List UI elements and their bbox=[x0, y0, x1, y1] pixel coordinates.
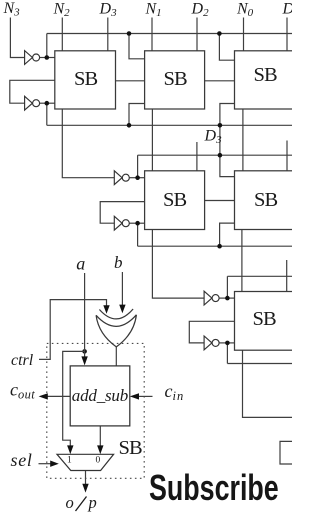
junction dot U6 out bbox=[225, 341, 230, 346]
label Subscribe banner bbox=[149, 467, 279, 509]
node N1 stem wire bbox=[151, 18, 153, 51]
svg-text:cout: cout bbox=[10, 380, 35, 402]
svg-text:1: 1 bbox=[67, 456, 72, 466]
svg-text:ctrl: ctrl bbox=[11, 352, 34, 369]
wire node D3 link between rails bbox=[219, 125, 221, 155]
wire bottom rail row2 bbox=[138, 245, 292, 247]
junction dot U2 out bbox=[45, 101, 50, 106]
wire SB3 left output down to rail row1 bbox=[220, 104, 235, 126]
wire D2 continuation into SB4 top bbox=[196, 142, 198, 171]
inverter U3 bbox=[114, 171, 122, 185]
junction dot U4 out bbox=[135, 221, 140, 226]
wire mux output o/p bbox=[85, 471, 87, 485]
arrowhead sel into mux bbox=[50, 461, 59, 467]
junction dot U3 out bbox=[135, 175, 140, 180]
mux M1 bbox=[57, 454, 114, 470]
wire riser inverter U5 output to rail row3 bbox=[226, 276, 228, 298]
wire top rail row1 bbox=[47, 33, 292, 35]
arrowhead c_in into add_sub pointing left bbox=[130, 393, 139, 399]
junction dot rail row2 x220 bbox=[218, 153, 223, 158]
svg-text:add_sub: add_sub bbox=[72, 386, 128, 405]
wire row4 cell fragment bbox=[280, 441, 292, 464]
wire SB3 bottom output down to SB5 top bbox=[242, 109, 244, 171]
wire dropper inverter U6 output to bottom rail row3 bbox=[226, 343, 228, 364]
junction dot bottom rail row1 x220 bbox=[218, 123, 223, 128]
svg-text:N2: N2 bbox=[53, 1, 71, 20]
wire SB6 bottom output down and right bbox=[243, 350, 293, 417]
node N2 stem wire bbox=[61, 18, 63, 51]
svg-text:SB: SB bbox=[164, 68, 188, 90]
svg-text:a: a bbox=[76, 253, 85, 273]
arrowhead ctrl into xor bbox=[103, 305, 109, 314]
svg-text:D: D bbox=[282, 1, 293, 18]
wire SB1 bottom output down to inverter U3 bbox=[62, 109, 114, 178]
dotted boundary box SB detail bbox=[47, 343, 144, 478]
wire riser inverter U1 output to top rail bbox=[46, 34, 48, 58]
wire top rail branch into SB2 left bbox=[129, 34, 145, 59]
svg-text:N0: N0 bbox=[236, 1, 254, 20]
svg-text:SB: SB bbox=[254, 64, 278, 86]
svg-text:0: 0 bbox=[96, 456, 101, 466]
wire top rail branch into SB3 left bbox=[219, 34, 234, 61]
wire top rail row3 bbox=[227, 275, 292, 277]
wire inverter U1 output to SB1 bbox=[40, 57, 55, 59]
arrowhead b into xor bbox=[119, 305, 125, 314]
inverter U6 bbox=[204, 336, 212, 350]
wire SB2 bottom output down to SB4 top bbox=[151, 109, 153, 171]
wire D1 continuation into SB6 top bbox=[286, 260, 288, 292]
node N3 label stem wire bbox=[10, 18, 24, 58]
junction dot bottom rail row1 x129 bbox=[127, 123, 132, 128]
junction dot top rail x219 bbox=[217, 31, 222, 36]
wire borrow SB2 to SB3 bbox=[205, 80, 235, 82]
svg-text:N3: N3 bbox=[3, 0, 21, 19]
svg-text:D2: D2 bbox=[191, 1, 210, 20]
svg-text:op: op bbox=[66, 493, 97, 512]
arrowhead a into add_sub bbox=[81, 356, 87, 365]
wire sel into mux bbox=[39, 463, 52, 465]
node D1 stem wire bbox=[286, 18, 288, 51]
wire inverter U4 output to SB4 bbox=[130, 222, 145, 224]
svg-text:SB: SB bbox=[119, 437, 143, 459]
label o/p slash bbox=[76, 497, 87, 512]
arrowhead bypass into mux 1 bbox=[67, 445, 73, 454]
node N0 stem wire bbox=[243, 18, 245, 51]
wire inverter U2 output to SB1 bbox=[40, 102, 55, 104]
inverter U5 bbox=[204, 291, 212, 305]
wire top rail row2 bbox=[138, 154, 292, 156]
wire c_in into add_sub bbox=[138, 395, 153, 397]
wire riser inverter U3 output to rail row2 bbox=[137, 155, 139, 178]
subtractor block SB4 bbox=[145, 171, 205, 230]
subtractor block SB5 bbox=[235, 171, 297, 230]
xor gate G1 bbox=[96, 309, 136, 347]
arrowhead c_out pointing left bbox=[39, 393, 48, 399]
svg-text:SB: SB bbox=[74, 68, 98, 90]
add_sub block U7 bbox=[70, 366, 130, 426]
subtractor block SB1 bbox=[55, 51, 116, 109]
subtractor block SB2 bbox=[145, 51, 205, 109]
arrowhead add_sub out into mux 0 bbox=[97, 445, 103, 454]
wire inverter U5 output to SB6 bbox=[219, 297, 234, 299]
wire SB5 bottom output down to SB6 top bbox=[241, 230, 243, 292]
wire SB6 feedback loop left bbox=[189, 321, 234, 343]
wire bottom rail row1 bbox=[47, 124, 292, 126]
junction dot top rail x129 bbox=[127, 31, 132, 36]
inverter U4 bbox=[114, 216, 122, 230]
wire bottom rail row3 bbox=[227, 363, 292, 365]
wire input a bbox=[84, 273, 86, 357]
svg-text:b: b bbox=[114, 253, 123, 272]
inverter U2 bbox=[25, 96, 33, 110]
wire add_sub output to mux input 0 bbox=[99, 426, 101, 446]
subtractor block SB6 bbox=[235, 292, 297, 351]
junction dot a bypass tap bbox=[82, 349, 87, 354]
svg-text:sel: sel bbox=[11, 450, 33, 470]
wire D1 continuation into SB5 top bbox=[286, 141, 288, 171]
wire SB5 left output down to rail row2 bbox=[220, 223, 235, 246]
wire borrow SB4 to SB5 bbox=[205, 200, 235, 202]
wire rail row2 branch into SB5 left bbox=[220, 155, 235, 176]
junction dot bottom rail row2 x219 bbox=[217, 244, 222, 249]
svg-text:N1: N1 bbox=[145, 1, 162, 20]
wire c_out from add_sub bbox=[48, 395, 71, 397]
wire dropper inverter U4 output to bottom rail row2 bbox=[137, 223, 139, 246]
junction dot U1 out bbox=[45, 55, 50, 60]
wire SB1 feedback loop left bbox=[10, 80, 55, 103]
wire a bypass to mux input 1 bbox=[63, 351, 85, 446]
svg-text:D3: D3 bbox=[99, 1, 118, 20]
junction dot U5 out bbox=[225, 296, 230, 301]
wire input b bbox=[121, 272, 123, 306]
wire xor output to add_sub bbox=[115, 347, 117, 366]
inverter U1 bbox=[25, 51, 33, 65]
arrowhead o/p output bbox=[82, 484, 88, 493]
wire ctrl to xor bbox=[39, 300, 107, 360]
subtractor block SB3 bbox=[235, 51, 297, 109]
svg-text:D3: D3 bbox=[204, 128, 223, 147]
svg-text:SB: SB bbox=[254, 189, 278, 211]
wire SB4 feedback loop left bbox=[100, 202, 144, 224]
wire SB2 left output down to rail row1 bbox=[129, 104, 145, 126]
svg-text:SB: SB bbox=[163, 189, 187, 211]
svg-text:SB: SB bbox=[253, 308, 277, 330]
wire SB4 bottom output down to inverter U5 bbox=[152, 230, 204, 299]
wire inverter U3 output to SB4 bbox=[130, 177, 145, 179]
node D3 stem wire bbox=[107, 18, 109, 51]
svg-text:cin: cin bbox=[165, 381, 185, 403]
node D2 stem wire bbox=[196, 18, 198, 51]
wire dropper inverter U2 output to bottom rail row1 bbox=[46, 103, 48, 125]
wire borrow SB1 to SB2 bbox=[116, 80, 145, 82]
wire inverter U6 output to SB6 bbox=[219, 342, 234, 344]
